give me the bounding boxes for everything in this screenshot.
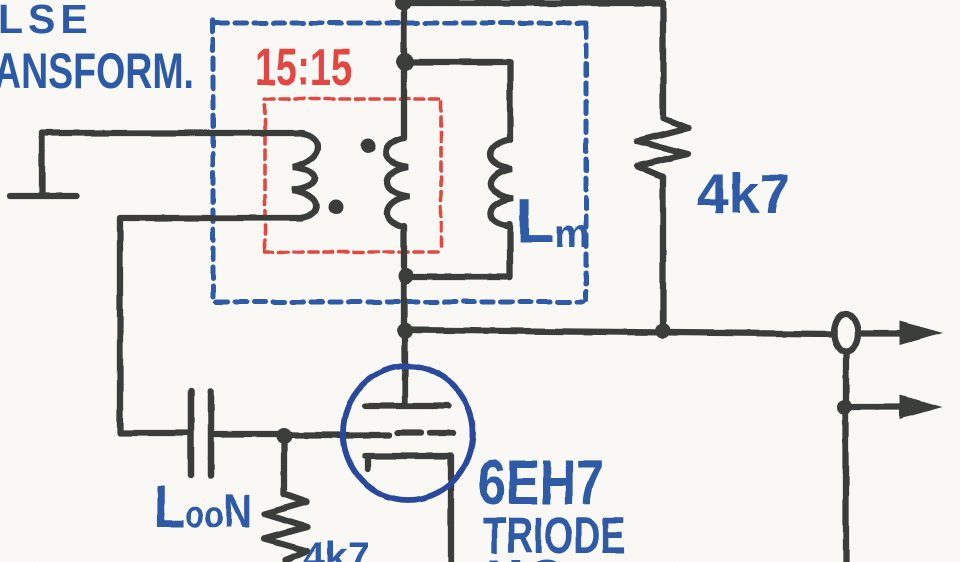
node grid (276, 428, 292, 444)
inductor secondary winding (386, 138, 409, 227)
wire grid lead (284, 432, 389, 438)
node bus left (397, 323, 413, 339)
resistor R2 cathode (264, 494, 307, 560)
wire top bus (403, 0, 663, 6)
inductor Lm winding (490, 140, 513, 226)
node 4k7 bottom (656, 324, 671, 339)
resistor R1 4k7 (637, 118, 688, 177)
transformer core boundary (red dashed box) (265, 99, 441, 252)
node arrow 2 tap (838, 400, 853, 415)
wire output bus (405, 330, 834, 334)
svg-text:15:15: 15:15 (255, 38, 352, 96)
wire to arrow 2 (845, 404, 903, 410)
capacitor C1 plates (188, 391, 195, 475)
wire cathode lead (448, 456, 454, 562)
label PULSE TRANSFORM. (0, 0, 194, 99)
wire capacitor to grid node (215, 431, 284, 437)
wire below loop (843, 352, 849, 562)
grid dash segments (398, 430, 421, 436)
arrow output 2 (900, 395, 943, 419)
node Lm tap (396, 53, 414, 71)
svg-text:4k7: 4k7 (697, 162, 790, 225)
wire secondary bottom lead (401, 226, 407, 331)
svg-text:4k7: 4k7 (303, 535, 370, 562)
wire Lm top lead (405, 62, 510, 140)
wire plate lead (402, 331, 408, 403)
anode bar (365, 403, 448, 409)
wire 4k7 top lead (660, 3, 666, 118)
phasing dot secondary (361, 139, 376, 154)
wire cathode resistor top lead (281, 444, 287, 494)
triode envelope U1 (343, 366, 473, 500)
node secondary bottom (398, 268, 414, 284)
wire top stub / secondary top lead (401, 0, 407, 138)
node top (395, 0, 411, 11)
cathode bar (365, 453, 451, 459)
wire primary top lead (42, 130, 303, 136)
label 6EH7 TRIODE (478, 448, 626, 562)
pulse transformer boundary (blue dashed box) (213, 20, 586, 302)
inductor primary winding (292, 134, 318, 218)
phasing dot primary (329, 200, 344, 215)
svg-text:LSE: LSE (0, 0, 93, 42)
crossover loop (834, 314, 858, 352)
wire loop to arrow 1 (858, 330, 903, 336)
wire 4k7 bottom lead (660, 177, 666, 331)
arrow output 1 (900, 321, 943, 345)
svg-text:ANSFORM.: ANSFORM. (0, 44, 194, 99)
wire Lm bottom lead (406, 224, 510, 277)
terminal input stub (39, 133, 45, 195)
wire primary bottom lead (120, 218, 302, 433)
